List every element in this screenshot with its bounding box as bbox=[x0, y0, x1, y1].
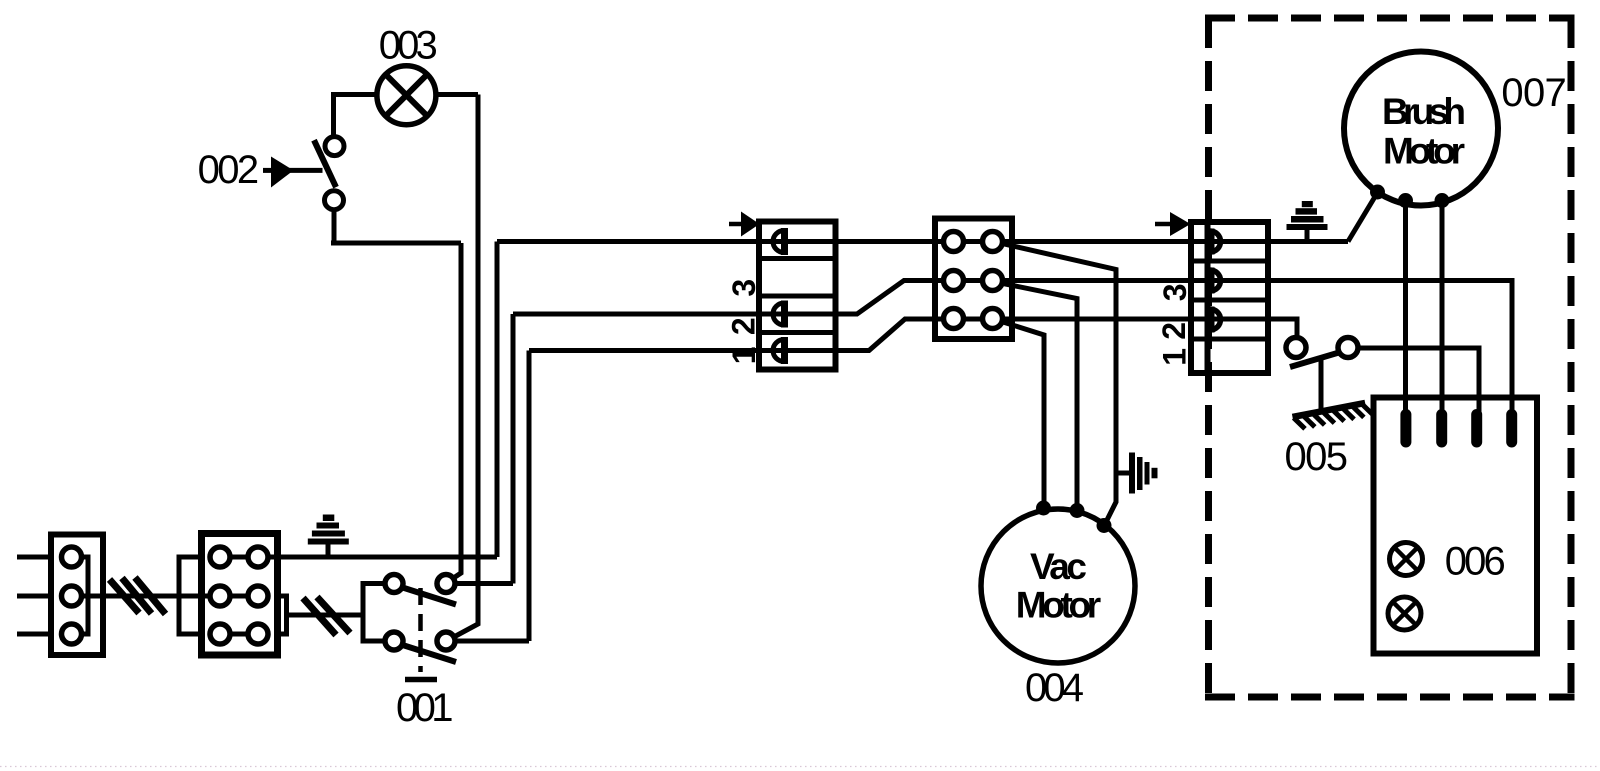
brush contact 1 bbox=[1400, 409, 1411, 448]
wire X1 to switch 001 bbox=[287, 613, 364, 618]
001 actuator bar bbox=[405, 677, 437, 683]
svg-text:005: 005 bbox=[1285, 435, 1349, 479]
svg-text:Brush: Brush bbox=[1382, 91, 1466, 132]
switch 005 bbox=[1286, 338, 1358, 411]
svg-text:2: 2 bbox=[726, 317, 762, 335]
wire vertical to 001 pole A bbox=[452, 243, 461, 579]
svg-text:002: 002 bbox=[198, 148, 260, 192]
brush contact 4 bbox=[1506, 409, 1517, 448]
lamp 006a bbox=[1390, 543, 1423, 576]
001 contact BL bbox=[385, 632, 403, 650]
wire brush motor left lead bbox=[1403, 201, 1408, 415]
connector A keying arrow bbox=[729, 222, 744, 227]
connector B (6 pin inline) bbox=[935, 219, 1012, 340]
wires of lamp/switch loop bbox=[331, 92, 478, 638]
terminal A row1 bbox=[773, 228, 785, 255]
001 mechanical link (dashed) bbox=[418, 588, 423, 672]
brush motor 007 bbox=[1344, 52, 1498, 209]
ground symbol vac motor (sideways) bbox=[1129, 453, 1158, 494]
main harness runs bbox=[497, 242, 1512, 415]
wire vertical feed to pin3 run bbox=[495, 242, 500, 558]
wire plug inner bracket bbox=[72, 557, 89, 634]
terminal A row3 bbox=[773, 301, 785, 328]
wire mains top run to corner bbox=[258, 555, 497, 560]
wire C row1 diagonal to brush motor bbox=[1348, 193, 1378, 242]
wire switch 005 to brush assembly pin3 bbox=[1357, 348, 1479, 414]
svg-text:001: 001 bbox=[396, 686, 454, 730]
brush contact 2 bbox=[1436, 409, 1447, 448]
node dot brush 3 bbox=[1435, 193, 1450, 208]
wire brush motor right lead bbox=[1440, 201, 1445, 415]
001 pole A lever bbox=[401, 587, 456, 605]
X1 pin 1L bbox=[210, 547, 230, 567]
dashed enclosure box 007 bbox=[1205, 18, 1575, 701]
svg-text:3: 3 bbox=[726, 279, 762, 297]
005 ground stem bbox=[1319, 358, 1324, 411]
svg-text:Motor: Motor bbox=[1016, 585, 1101, 626]
connector C keying arrow bbox=[1155, 222, 1173, 227]
page footer rule bbox=[0, 766, 1600, 768]
wire riser pole B output bbox=[527, 351, 532, 642]
B pin 2R bbox=[983, 271, 1003, 291]
terminal A row4 bbox=[773, 337, 784, 364]
005 lever bbox=[1290, 353, 1339, 368]
001 left bracket bbox=[363, 584, 387, 642]
001 contact TR bbox=[437, 575, 455, 593]
B pin 1L bbox=[944, 232, 964, 252]
node dot vac 3 bbox=[1097, 518, 1112, 533]
node dot brush 2 bbox=[1398, 193, 1413, 208]
001 output B to riser bbox=[446, 639, 529, 644]
002 contact bottom bbox=[325, 191, 344, 210]
001 output A to riser bbox=[446, 581, 513, 586]
ground symbol on mains earth wire bbox=[308, 515, 349, 558]
svg-text:Vac: Vac bbox=[1030, 546, 1087, 587]
plug pin bottom bbox=[62, 624, 82, 644]
vac motor 004 bbox=[981, 501, 1135, 664]
node dot vac 2 bbox=[1070, 503, 1085, 518]
wire X1 row3 link bbox=[220, 632, 258, 637]
wire riser pole A output bbox=[511, 314, 516, 584]
wires inside enclosure bbox=[1348, 193, 1479, 415]
switch 002 bbox=[263, 137, 344, 210]
svg-text:006: 006 bbox=[1445, 540, 1506, 584]
wire branch from B row3 bbox=[1003, 322, 1044, 508]
wire run 1 bbox=[529, 319, 1297, 351]
terminal C row1 bbox=[1210, 229, 1221, 255]
wire X1 row2 link bbox=[220, 594, 258, 599]
mains plug connector (3 pin) bbox=[51, 535, 103, 656]
connector A (cable side 1-2-3) bbox=[726, 212, 836, 370]
ground stem vac motor bbox=[1116, 471, 1129, 476]
002 contact top bbox=[325, 137, 344, 156]
brush contact 3 bbox=[1471, 409, 1482, 448]
terminal C row3 bbox=[1210, 307, 1221, 333]
svg-text:007: 007 bbox=[1501, 71, 1566, 115]
002 actuator arrow bbox=[263, 168, 274, 173]
wire branch from B row2 bbox=[1003, 284, 1077, 511]
lamp 003 bbox=[377, 66, 436, 125]
X1 pin 2L bbox=[210, 586, 230, 606]
B pin 1R bbox=[983, 232, 1003, 252]
wire plug pin3 stub bbox=[17, 632, 52, 637]
brush assembly 006 bbox=[1374, 398, 1538, 654]
plug pin middle bbox=[62, 586, 82, 606]
005 contact right bbox=[1338, 338, 1358, 358]
B pin 3R bbox=[983, 309, 1003, 329]
plug pin top bbox=[62, 547, 82, 567]
connector block X1 (6 pin) bbox=[202, 534, 278, 656]
switch 001 (double pole) bbox=[363, 314, 529, 680]
X1 pin 2R bbox=[248, 586, 268, 606]
wire X1 row1 link bbox=[220, 555, 258, 560]
branch wires to vac motor bbox=[1002, 244, 1129, 526]
node dot vac 1 bbox=[1036, 501, 1051, 516]
node dot brush 1 bbox=[1370, 185, 1385, 200]
X1 pin 3R bbox=[248, 624, 268, 644]
005 contact left bbox=[1286, 338, 1306, 358]
001 contact TL bbox=[385, 575, 403, 593]
wire above switch 002 bbox=[331, 92, 336, 137]
wire lamp top run bbox=[331, 92, 478, 97]
svg-text:003: 003 bbox=[379, 24, 438, 68]
X1 pin 1R bbox=[248, 547, 268, 567]
wire run 3 (top) bbox=[497, 239, 1348, 244]
connector C (motor side 1-2-3) bbox=[1155, 212, 1268, 373]
wire lamp right vertical to 001 pole B bbox=[452, 95, 478, 639]
svg-text:1: 1 bbox=[1157, 348, 1193, 366]
wire plug pin1 stub bbox=[17, 555, 52, 560]
001 contact BR bbox=[437, 632, 455, 650]
wire bracket left of connector X1 bbox=[179, 557, 202, 634]
wire plug pin2 stub bbox=[17, 594, 52, 599]
B pin 2L bbox=[944, 271, 964, 291]
svg-text:Motor: Motor bbox=[1383, 131, 1465, 172]
001 pole B lever bbox=[401, 645, 456, 663]
wire loop bottom bbox=[331, 241, 461, 246]
wire run 2 bbox=[513, 281, 1512, 415]
terminal C row2 bbox=[1210, 268, 1221, 294]
strain relief slashes on mains cord bbox=[110, 578, 166, 615]
lamp 006b bbox=[1388, 597, 1421, 630]
chassis ground at switch 005 bbox=[1293, 402, 1374, 431]
svg-text:2: 2 bbox=[1156, 322, 1192, 340]
svg-text:3: 3 bbox=[1157, 283, 1193, 301]
ground symbol at connector C bbox=[1287, 201, 1328, 242]
svg-text:1: 1 bbox=[726, 346, 762, 364]
strain relief slashes on switch feed bbox=[303, 597, 350, 635]
B pin 3L bbox=[944, 309, 964, 329]
wire bracket right of connector X1 bbox=[278, 596, 287, 634]
002 lever bbox=[314, 140, 336, 187]
wire below switch 002 bbox=[332, 210, 337, 246]
wire branch from B row1 bbox=[1002, 244, 1116, 526]
X1 pin 3L bbox=[210, 624, 230, 644]
wire mains cord middle bbox=[72, 594, 221, 599]
svg-text:004: 004 bbox=[1025, 666, 1084, 710]
